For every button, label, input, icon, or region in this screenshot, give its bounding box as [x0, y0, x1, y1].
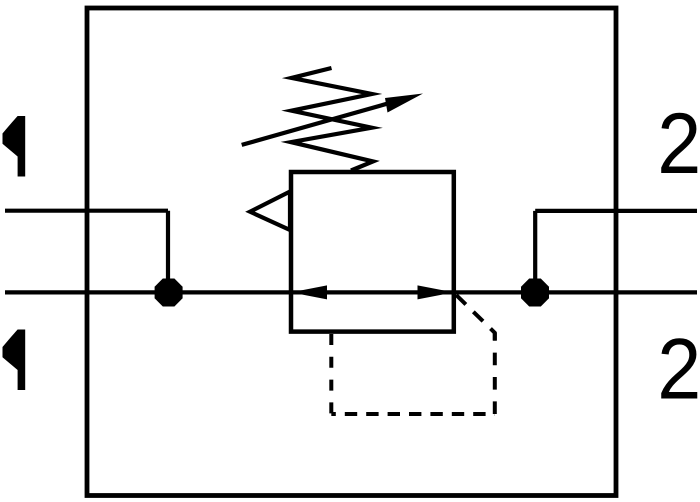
wire: port 1 upper branch horizontal [5, 209, 168, 213]
wire: right branch vertical rise [533, 211, 537, 293]
svg-text:2: 2 [657, 95, 700, 192]
wire: main flow line 1 to 2 [5, 290, 697, 294]
pilot line dashed: bottom horizontal (left to right) [331, 412, 495, 416]
valve body square (regulator) [291, 172, 454, 332]
enclosure frame (component boundary box) [87, 8, 616, 496]
relieving vent triangle (pilot exhaust) [250, 192, 290, 231]
port label 1 (bottom left, port 1) [3, 330, 26, 391]
pilot line dashed: right vertical (drawn bottom-up) [493, 333, 497, 414]
wire: port 2 upper branch horizontal [535, 209, 697, 213]
port label 1 (top left, port 1) [3, 116, 26, 177]
pilot line dashed: left vertical up to valve body [329, 334, 333, 414]
pilot line dashed: diagonal from outlet with corner wrap [456, 295, 495, 345]
wire: left branch vertical drop [166, 211, 170, 293]
flow arrowhead right (pointing out to port 2) [418, 285, 454, 299]
spring (adjustable, zigzag) [291, 68, 373, 171]
svg-text:2: 2 [657, 321, 700, 418]
flow arrowhead left (pointing out to port 1) [291, 285, 327, 299]
node: junction dot right [521, 279, 549, 307]
node: junction dot left [155, 279, 183, 307]
adjustment arrow shaft [242, 102, 392, 145]
adjustment arrow head [385, 94, 423, 113]
